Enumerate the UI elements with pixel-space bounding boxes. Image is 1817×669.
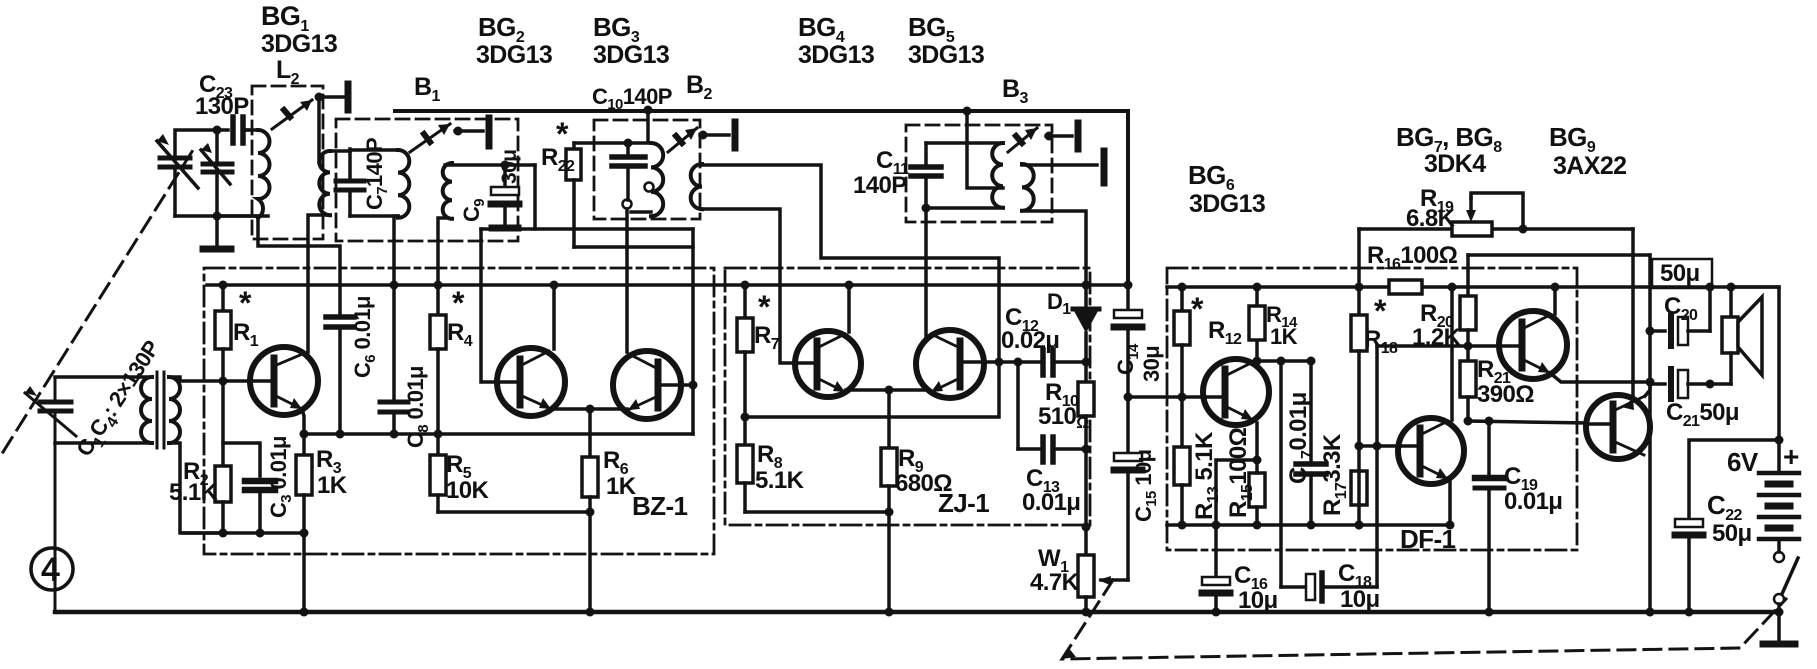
node R19 wiper tie <box>1519 225 1528 234</box>
wire BG4 collector to rail <box>847 285 851 332</box>
IF transformer B1 primary <box>398 150 409 218</box>
switch contact circles <box>1774 552 1784 562</box>
node BG7 collector rail <box>1551 283 1560 292</box>
resistor R12 <box>1174 287 1190 397</box>
mechanical link dashed to switch <box>1062 580 1786 659</box>
variable capacitor C4 (osc gang) <box>157 134 198 216</box>
node BG4 collector rail <box>845 281 854 290</box>
capacitor C23 <box>233 117 248 143</box>
resistor R10 <box>1078 362 1094 449</box>
wire R22 top row <box>574 141 651 145</box>
svg-text:5.1K: 5.1K <box>169 479 219 506</box>
node C16 row <box>1212 521 1221 530</box>
node R9 bus <box>885 608 894 617</box>
wire L2 primary top <box>247 128 258 132</box>
node R6 bus <box>586 608 595 617</box>
node C20 left <box>1646 327 1655 336</box>
antenna coil L1 primary <box>141 377 152 443</box>
node emitter R15 <box>1253 456 1262 465</box>
node C10 top <box>624 139 633 148</box>
wire R19 top row <box>1359 227 1452 231</box>
wire BG6 collector riser <box>1255 340 1259 361</box>
svg-text:DF-1: DF-1 <box>1400 524 1456 554</box>
svg-text:130P: 130P <box>195 93 249 120</box>
svg-text:*: * <box>239 285 252 321</box>
circled figure number 4 <box>31 548 73 590</box>
wire to volume pot <box>1084 449 1088 555</box>
wire C7 top to B1 primary <box>350 148 398 152</box>
node C16 bus <box>1212 608 1221 617</box>
wire B2 secondary top to BG5 base <box>702 165 999 362</box>
svg-text:C2150μ: C2150μ <box>1666 399 1739 430</box>
resistor R6 <box>582 409 598 612</box>
svg-text:BZ-1: BZ-1 <box>632 491 688 521</box>
chassis bar near B2 <box>732 122 739 148</box>
node B1 tap to rail <box>454 127 463 136</box>
resistor R14 <box>1249 287 1265 340</box>
variable capacitor C1 (antenna gang) <box>25 377 76 612</box>
resistor R21 <box>1460 346 1476 421</box>
oscillator tank left wire <box>175 130 228 158</box>
node BG8 emitter row <box>1446 521 1455 530</box>
chassis bar near B3 <box>1075 123 1082 149</box>
resistor R15 <box>1249 460 1265 525</box>
B3 tap switch arrow <box>1008 128 1037 152</box>
node rail drop C14 <box>1124 281 1133 290</box>
electrolytic C15 <box>1114 397 1142 580</box>
shield box B2 (dashed) <box>594 120 700 219</box>
svg-text:C15 10μ: C15 10μ <box>1131 450 1160 522</box>
wire C12 left riser <box>1016 362 1020 449</box>
wire BG8 collector riser <box>1450 287 1454 420</box>
IF transformer B3 primary <box>992 143 1003 208</box>
svg-text:30μ: 30μ <box>1139 346 1164 382</box>
wire rail to battery <box>1731 287 1779 440</box>
svg-text:140P: 140P <box>853 172 907 199</box>
resistor R2 <box>215 381 231 533</box>
wire BG7 base <box>1377 344 1500 348</box>
capacitor C17 <box>1296 361 1326 525</box>
shield box B1 (dashed) <box>336 119 518 241</box>
svg-text:6V: 6V <box>1727 447 1759 477</box>
transistor BG2 <box>497 348 565 416</box>
transistor BG4 <box>795 331 861 397</box>
node tank bottom <box>213 212 222 221</box>
wire L2 primary bottom to tank <box>217 214 258 218</box>
wire tap node to chassis bar <box>455 129 483 133</box>
node C20 right rail <box>1706 283 1715 292</box>
node C19 bus <box>1485 608 1494 617</box>
resistor R17 <box>1351 471 1367 505</box>
capacitor C19 <box>1475 421 1504 612</box>
L2 feedback tap wire <box>317 97 321 162</box>
svg-text:*: * <box>758 289 771 325</box>
electrolytic C9 <box>491 165 519 228</box>
node R2 bottom <box>219 529 228 538</box>
node L2 tap <box>315 93 324 102</box>
svg-text:1K: 1K <box>1270 324 1298 349</box>
shield box L2 (dashed) <box>252 86 323 239</box>
shield box B3 (dashed) <box>906 125 1052 222</box>
wire L2 secondary bottom to BG1 collector <box>308 215 330 352</box>
svg-text:C7140P: C7140P <box>362 138 391 210</box>
transformer B2 secondary <box>691 164 702 209</box>
wire C11 bottom to B3 primary bottom <box>926 206 1003 210</box>
svg-text:ZJ-1: ZJ-1 <box>938 488 989 518</box>
wire BG7 emitter to output <box>1550 373 1650 382</box>
svg-text:+: + <box>1783 441 1799 472</box>
electrolytic C14 <box>1114 285 1142 397</box>
node C3 bottom <box>256 529 265 538</box>
node R21 bottom <box>1464 417 1473 426</box>
svg-text:3DG13: 3DG13 <box>476 41 552 69</box>
wire C1 top to L1 <box>55 375 152 379</box>
svg-text:R173.3K: R173.3K <box>1319 433 1350 516</box>
transistor BG1 <box>250 347 318 415</box>
transistor BG3 (mirrored) <box>613 351 681 419</box>
wire emitter row <box>304 432 693 436</box>
wire internal rail BZ-1/ZJ-1 <box>207 283 1128 287</box>
node output bus <box>1646 608 1655 617</box>
switch lever <box>1782 558 1798 594</box>
svg-text:3AX22: 3AX22 <box>1553 152 1626 180</box>
capacitor C10 <box>612 143 645 200</box>
node B3 tap <box>1045 132 1054 141</box>
chassis ground at battery <box>1763 612 1795 644</box>
resistor R5 <box>430 434 446 512</box>
node R10 bottom <box>1082 445 1091 454</box>
L2 tap switch arrow <box>272 100 312 129</box>
node BG3 base <box>689 381 698 390</box>
label box 50u <box>1652 259 1712 288</box>
wire C3 top tap <box>223 443 260 476</box>
node R3 at bus <box>300 608 309 617</box>
B2 primary bottom link <box>631 210 651 214</box>
svg-text:3DG13: 3DG13 <box>1189 190 1265 218</box>
node B1 primary/rail <box>390 281 399 290</box>
wire base bus to BG3 base <box>691 229 695 385</box>
node tank top <box>213 126 222 135</box>
wire BG5 collector riser to B3 <box>924 208 928 336</box>
wire BG1 emitter down <box>302 409 304 434</box>
wire B1 primary bottom down to rail <box>394 216 398 285</box>
svg-text:10μ: 10μ <box>1238 587 1278 614</box>
resistor R9 <box>881 390 897 612</box>
connector circle B2 tap <box>645 183 654 192</box>
wire BG8 emitter riser <box>1448 481 1452 525</box>
wire BG2 collector to rail <box>552 285 556 349</box>
wire BG6 base <box>1128 395 1203 399</box>
wire C22 tap <box>1689 440 1779 519</box>
svg-text:*: * <box>1191 291 1204 327</box>
node R13 row <box>1178 521 1187 530</box>
wire B2 tap to chassis <box>700 133 729 137</box>
wire B1 secondary bottom to rail <box>438 218 445 285</box>
wire L1 secondary bottom down <box>169 443 223 533</box>
node W1 bus <box>1082 608 1091 617</box>
svg-text:C6 0.01μ: C6 0.01μ <box>350 296 379 378</box>
svg-text:*: * <box>1374 293 1387 329</box>
node R6 row join <box>586 508 595 517</box>
node R12 base <box>1178 393 1187 402</box>
resistor R3 <box>296 434 312 612</box>
svg-text:6.8K: 6.8K <box>1406 205 1456 232</box>
resistor R16 <box>1389 280 1422 294</box>
wire BG8 base <box>1359 444 1400 448</box>
node R18 rail <box>1355 283 1364 292</box>
node C22 bus <box>1685 608 1694 617</box>
node R7 rail <box>741 281 750 290</box>
wire L2 primary bottom to C6 <box>258 218 340 314</box>
L1 ferrite core <box>156 372 159 448</box>
wire R7 row to BG5 base riser <box>745 362 999 417</box>
svg-text:1.2K: 1.2K <box>1412 324 1462 351</box>
wire B1 secondary to base bus <box>533 165 537 229</box>
B1 tap switch arrow <box>410 124 450 152</box>
node R9 row join <box>885 508 894 517</box>
wire collector row to BG7 base riser <box>1375 346 1379 587</box>
wire BZ-1 left ground row <box>184 531 304 535</box>
svg-text:5.1K: 5.1K <box>755 467 805 494</box>
capacitor C12 <box>1043 350 1086 375</box>
capacitor C8 <box>380 285 408 434</box>
wire L1 secondary top to BG1 base <box>169 377 251 381</box>
resistor R4 <box>430 285 446 434</box>
oscillator coil L2 primary <box>258 130 270 218</box>
node R14 rail <box>1253 283 1262 292</box>
wire BG3 collector riser to B2 <box>625 209 629 352</box>
node R7 bottom <box>741 413 750 422</box>
node BG1 base <box>219 377 228 386</box>
wire L1 primary bottom <box>55 441 152 445</box>
wire BG5 base to C12 row <box>984 360 1042 364</box>
node C8 join <box>390 430 399 439</box>
wire B+ tap into B3 <box>967 111 1003 188</box>
transistor BG7 <box>1499 311 1567 379</box>
wire top B+ rail <box>395 111 1128 285</box>
svg-text:50μ: 50μ <box>1712 520 1752 547</box>
svg-text:4.7K: 4.7K <box>1030 569 1080 596</box>
node B2 tap <box>699 131 708 140</box>
node R1 top rail <box>219 281 228 290</box>
svg-text:3DG13: 3DG13 <box>261 30 337 58</box>
node C17 top <box>1307 357 1316 366</box>
diode D1 <box>1073 285 1099 362</box>
node C12 left <box>1014 358 1023 367</box>
svg-text:10μ: 10μ <box>1340 586 1380 613</box>
transistor BG6 <box>1203 359 1269 425</box>
resistor R7 <box>737 285 753 417</box>
wire R20 top row <box>1468 253 1650 257</box>
svg-text:C8 0.01μ: C8 0.01μ <box>403 366 432 448</box>
node BG7 base junction <box>1464 342 1473 351</box>
wire bottom ground bus <box>55 610 1779 615</box>
capacitor C3 <box>245 481 275 533</box>
svg-text:3DG13: 3DG13 <box>593 41 669 69</box>
node BG6 collector <box>1253 357 1262 366</box>
resistor R20 <box>1460 255 1476 346</box>
svg-text:R13 5.1K: R13 5.1K <box>1191 431 1222 520</box>
svg-text:R16100Ω: R16100Ω <box>1367 242 1458 273</box>
rail DF-1 with R16 <box>1167 285 1389 289</box>
svg-text:1K: 1K <box>317 472 348 499</box>
svg-text:C3 0.01μ: C3 0.01μ <box>266 436 295 518</box>
wire BG9 emitter link <box>1645 382 1650 396</box>
module box ZJ-1 (dash-dot) <box>725 268 1090 525</box>
node R17 row <box>1355 521 1364 530</box>
svg-text:3DG13: 3DG13 <box>908 41 984 69</box>
node R15 row <box>1253 521 1262 530</box>
node B2 rail feed <box>644 106 653 115</box>
wire C16 tap <box>1216 460 1257 577</box>
node at ZJ-1 edge <box>1082 523 1091 532</box>
IF transformer B1 secondary <box>443 163 452 219</box>
wire B1 secondary top <box>445 163 535 167</box>
resistor R18 <box>1351 315 1367 525</box>
module box BZ-1 (dash-dot) <box>204 268 714 554</box>
svg-text:30μ: 30μ <box>498 150 521 184</box>
wire L2 secondary top into B1 <box>330 149 350 153</box>
trimmer capacitor <box>201 130 232 216</box>
wire R8 bottom row <box>745 510 889 514</box>
svg-text:C10140P: C10140P <box>592 84 672 113</box>
capacitor C6 <box>326 317 354 434</box>
wire B3 tap to chassis <box>1046 134 1072 138</box>
wire tank bottom <box>175 214 268 218</box>
B2 tap switch arrow <box>668 128 697 152</box>
svg-text:10K: 10K <box>446 477 489 504</box>
resistor R1 <box>215 285 231 381</box>
node R12 rail <box>1178 283 1187 292</box>
transistor BG8 <box>1398 418 1464 484</box>
svg-text:0.01μ: 0.01μ <box>1504 488 1562 515</box>
wire BG9 base row <box>1468 421 1586 423</box>
capacitor C18 <box>1281 361 1377 601</box>
potentiometer R19 <box>1452 193 1523 236</box>
chassis bar near L2 <box>345 84 352 110</box>
wire BG3 base riser <box>681 385 693 434</box>
wire C7 bottom to B1 primary bottom <box>350 214 398 218</box>
wire tap to chassis bar <box>319 95 343 99</box>
node C18 left at collector row <box>1277 357 1286 366</box>
node C18 riser at BG8 base <box>1373 442 1382 451</box>
electrolytic C22 <box>1675 519 1703 612</box>
node battery top <box>1775 436 1784 445</box>
wire base bus to BG2 base <box>481 229 496 382</box>
ganged tuning dashed diagonal <box>3 150 193 452</box>
antenna coil L1 secondary <box>169 377 180 443</box>
electrolytic C16 <box>1202 577 1230 612</box>
svg-text:50μ: 50μ <box>1660 260 1700 287</box>
svg-text:R15100Ω: R15100Ω <box>1225 427 1256 518</box>
wire switch to bus <box>1777 604 1781 612</box>
capacitor C7 <box>336 149 364 216</box>
node switch bus <box>1775 608 1784 617</box>
node C6 join <box>336 430 345 439</box>
wire B2 secondary bottom to BG4 base <box>702 209 795 363</box>
node BG6 base tee <box>1124 393 1133 402</box>
node BG5 base <box>995 358 1004 367</box>
ground below trimmer <box>203 216 231 249</box>
node R18 row <box>1355 521 1364 530</box>
svg-text:0.01μ: 0.01μ <box>1022 489 1080 516</box>
svg-text:390Ω: 390Ω <box>1477 381 1534 408</box>
wire C11 top to B3 primary <box>926 141 1003 145</box>
wire BG2/BG3 emitter join <box>551 407 627 411</box>
battery 6V <box>1759 440 1799 552</box>
node emitters R9 <box>885 386 894 395</box>
capacitor C13 <box>1018 437 1086 462</box>
transistor BG9 (PNP mirrored) <box>1586 395 1650 459</box>
node B3 feed on top rail <box>963 107 972 116</box>
svg-text:C170.01μ: C170.01μ <box>1285 392 1316 484</box>
wire rail to B2 primary <box>646 110 650 141</box>
chassis bar at B3 secondary <box>1101 151 1108 183</box>
resistor R13 <box>1174 397 1190 525</box>
wire B3 secondary top to chassis <box>1022 163 1097 167</box>
svg-text:3DK4: 3DK4 <box>1424 150 1486 178</box>
capacitor C11 <box>911 143 941 208</box>
svg-text:3DG13: 3DG13 <box>798 41 874 69</box>
node BG2 collector rail <box>550 281 559 290</box>
wire output vertical to bus <box>1648 255 1652 612</box>
resistor R22 <box>566 143 693 247</box>
wire DF-1 ground row <box>1167 523 1450 527</box>
node BG1 emitter <box>300 430 309 439</box>
node C9 tap <box>501 161 510 170</box>
wire collector row <box>1257 359 1311 363</box>
node R18 base tap <box>1355 442 1364 451</box>
resistor R8 <box>737 417 753 512</box>
node R4 rail <box>434 281 443 290</box>
IF transformer B3 secondary <box>1022 164 1034 211</box>
wire BG7 collector riser <box>1553 287 1557 314</box>
speaker <box>1722 287 1762 384</box>
chassis bar near B1 <box>486 118 493 146</box>
electrolytic C21 <box>1650 369 1731 399</box>
electrolytic C20 <box>1650 287 1710 346</box>
svg-text:4: 4 <box>41 551 60 589</box>
node detector rail <box>1082 281 1091 290</box>
oscillator transformer B2 primary <box>651 143 663 216</box>
svg-text:0.02μ: 0.02μ <box>1001 327 1059 354</box>
transistor BG5 (mirrored) <box>916 330 984 398</box>
node BG8 collector rail <box>1448 283 1457 292</box>
wire BG6 emitter riser <box>1255 423 1259 460</box>
connector circle B2 bottom <box>623 200 632 209</box>
oscillator coil L2 secondary <box>319 151 330 215</box>
node emitters R6 <box>586 405 595 414</box>
node C17 row <box>1307 521 1316 530</box>
node R3 join ground row <box>300 529 309 538</box>
svg-text:*: * <box>452 285 465 321</box>
potentiometer W1 <box>1078 555 1128 612</box>
wire base bus BG2/BG3 <box>481 227 693 231</box>
node D1 anode <box>1082 358 1091 367</box>
node speaker bottom <box>1706 380 1715 389</box>
node output <box>1646 378 1655 387</box>
wire B3 secondary bottom to detector <box>1022 211 1086 285</box>
wire BG4/BG5 emitters <box>846 388 929 392</box>
wire R5 bottom row <box>438 510 590 514</box>
wire R18 riser <box>1357 229 1361 315</box>
node C19 top <box>1485 417 1494 426</box>
node R4 bottom <box>434 430 443 439</box>
node C11 bottom <box>922 204 931 213</box>
node speaker top rail <box>1727 283 1736 292</box>
svg-text:*: * <box>556 116 569 152</box>
module box DF-1 (dash-dot) <box>1167 268 1577 550</box>
